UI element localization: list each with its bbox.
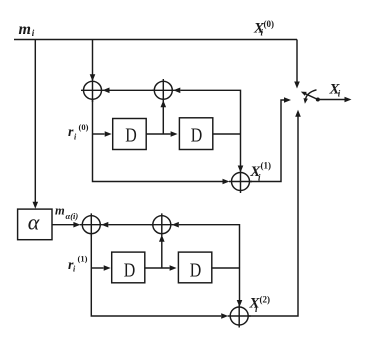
wire: row junction into D1 <box>93 131 112 137</box>
switch rotation arc <box>304 90 317 104</box>
adder U5 (XOR, bottom-middle) <box>150 213 173 236</box>
adder U3 (XOR, x1 output) <box>229 170 252 193</box>
svg-text:D: D <box>190 260 202 282</box>
label r_i^(0) <box>68 122 89 142</box>
wire: m_i bus down into interleaver A1 <box>33 40 39 209</box>
label x_i^(0) <box>253 19 274 38</box>
wire: feedback node up and left into U5 <box>172 222 240 268</box>
D flip-flop D4 <box>178 252 211 283</box>
adder U1 (XOR, top-left) <box>81 79 104 102</box>
svg-text:i: i <box>73 265 76 274</box>
interleaver A1 (alpha box) <box>18 209 52 240</box>
svg-text:i: i <box>74 133 77 142</box>
label x_i^(2) <box>249 295 271 314</box>
wire: m_i horizontal bus <box>14 39 297 41</box>
adder U4 (XOR, bottom-left) <box>80 213 103 236</box>
svg-text:D: D <box>125 125 137 147</box>
wire: U4 output down to register row junction <box>90 234 92 268</box>
wire: U6 output up to switch bottom contact (x2) <box>248 110 301 316</box>
wire: A1 output into adder U4 <box>52 222 80 228</box>
wire: feedback node down into adder U3 <box>238 134 244 173</box>
wire: bus drop into adder U1 <box>90 40 96 82</box>
wire: row junction into D3 <box>91 265 110 271</box>
svg-text:m: m <box>55 204 65 218</box>
adder U6 (XOR, x2 output) <box>228 305 251 328</box>
wire: U1 output down to register row junction <box>92 99 94 134</box>
label m_alpha(i) <box>55 204 78 222</box>
wire: r(0) rail down and right to adder U3 <box>93 134 230 184</box>
wire: U2 output left into U1 <box>103 88 155 94</box>
svg-text:(0): (0) <box>264 19 275 29</box>
svg-text:(0): (0) <box>79 122 89 132</box>
adder U2 (XOR, top-middle) <box>152 79 175 102</box>
D flip-flop D3 <box>112 252 145 283</box>
wire: feedback node down into adder U6 <box>237 268 243 307</box>
label m_i (input) <box>19 21 35 38</box>
wire: D4 output to feedback node <box>212 267 240 269</box>
wire: U5 output left into U4 <box>101 222 153 228</box>
wire: D3 output to D4 input <box>145 265 177 271</box>
svg-text:α: α <box>28 210 40 235</box>
wire: m_i bus down to switch top contact (x0) <box>294 40 300 89</box>
wire: tap junction up into adder U2 <box>161 100 167 134</box>
svg-text:i: i <box>338 89 341 99</box>
wire: tap junction up into adder U5 <box>159 235 165 268</box>
label x_i^(1) <box>249 161 271 183</box>
svg-text:(2): (2) <box>260 295 271 305</box>
svg-text:(1): (1) <box>261 161 272 171</box>
svg-text:α(i): α(i) <box>66 211 79 221</box>
svg-text:m: m <box>19 21 31 38</box>
svg-text:D: D <box>191 125 203 147</box>
wire: r(1) rail down and right to adder U6 <box>91 268 228 319</box>
svg-text:(1): (1) <box>78 254 88 264</box>
label r_i^(1) <box>68 254 88 274</box>
svg-text:D: D <box>124 260 136 282</box>
wire: D1 output to D2 input <box>146 131 177 137</box>
switch contact dot <box>316 98 320 102</box>
wire: switch output x_i <box>318 97 352 103</box>
wire: D2 output to feedback node <box>213 133 241 135</box>
label x_i (output) <box>329 81 341 98</box>
switch wiper arm <box>301 92 318 100</box>
svg-text:i: i <box>32 28 35 38</box>
wire: U3 output up to switch contact (x1) <box>250 97 292 181</box>
D flip-flop D1 <box>113 119 147 150</box>
D flip-flop D2 <box>179 118 212 150</box>
wire: feedback node up and left into U2 <box>173 88 240 135</box>
